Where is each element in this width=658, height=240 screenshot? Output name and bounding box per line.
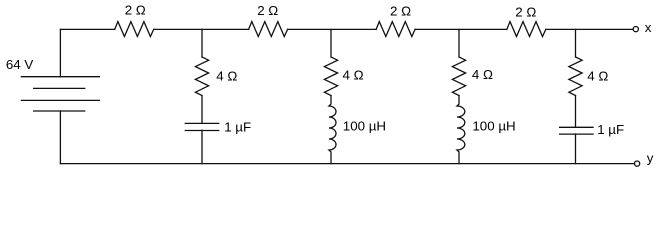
svg-text:4 Ω: 4 Ω [587,68,608,83]
wire battery bottom to bottom rail [59,111,61,164]
svg-text:x: x [645,20,652,35]
svg-text:2 Ω: 2 Ω [257,3,278,18]
wire top rail segment 3 [288,28,377,30]
node junction shunt 3 [458,29,460,57]
node junction shunt 2 [330,29,332,57]
wire top rail segment 5 [546,28,633,30]
svg-text:100 µH: 100 µH [343,118,386,133]
battery V1 64 V [21,77,99,111]
wire top rail segment 4 [415,28,507,30]
svg-text:2 Ω: 2 Ω [125,3,146,18]
node junction shunt 4 [575,29,577,57]
wire top rail segment 2 [154,28,249,30]
svg-text:100 µH: 100 µH [472,119,515,134]
resistor 4 ohm shunt 3 [452,57,465,96]
resistor 2 ohm R4 [507,22,546,37]
svg-text:4 Ω: 4 Ω [472,67,493,82]
resistor 2 ohm R1 [115,22,154,37]
svg-text:2 Ω: 2 Ω [390,3,411,18]
svg-text:64 V: 64 V [6,57,34,72]
inductor L2 100 uH [457,96,465,164]
capacitor C1 1 uF [185,123,218,130]
inductor L1 100 uH [329,96,336,164]
svg-text:2 Ω: 2 Ω [515,5,536,20]
resistor 2 ohm R2 [249,22,288,37]
wire top rail segment 1 [60,28,114,30]
capacitor C2 1 uF [560,127,593,134]
wire shunt 1 capacitor to bottom rail [201,130,203,163]
resistor 4 ohm shunt 1 [195,57,208,96]
wire bottom rail [60,163,634,165]
wire shunt 1 resistor to capacitor [201,96,203,124]
terminal y [635,161,640,166]
wire shunt 4 resistor to capacitor [575,96,577,128]
wire shunt 4 capacitor to bottom rail [575,134,577,164]
svg-text:4 Ω: 4 Ω [343,67,364,82]
svg-text:4 Ω: 4 Ω [216,68,237,83]
resistor 4 ohm shunt 4 [569,57,582,96]
terminal x [633,27,638,32]
svg-text:y: y [647,151,654,166]
resistor 2 ohm R3 [376,22,415,37]
svg-text:1 µF: 1 µF [224,119,251,134]
svg-text:1 µF: 1 µF [597,122,624,137]
wire battery top to top rail [59,29,61,76]
resistor 4 ohm shunt 2 [324,57,337,96]
node junction shunt 1 [201,29,203,57]
